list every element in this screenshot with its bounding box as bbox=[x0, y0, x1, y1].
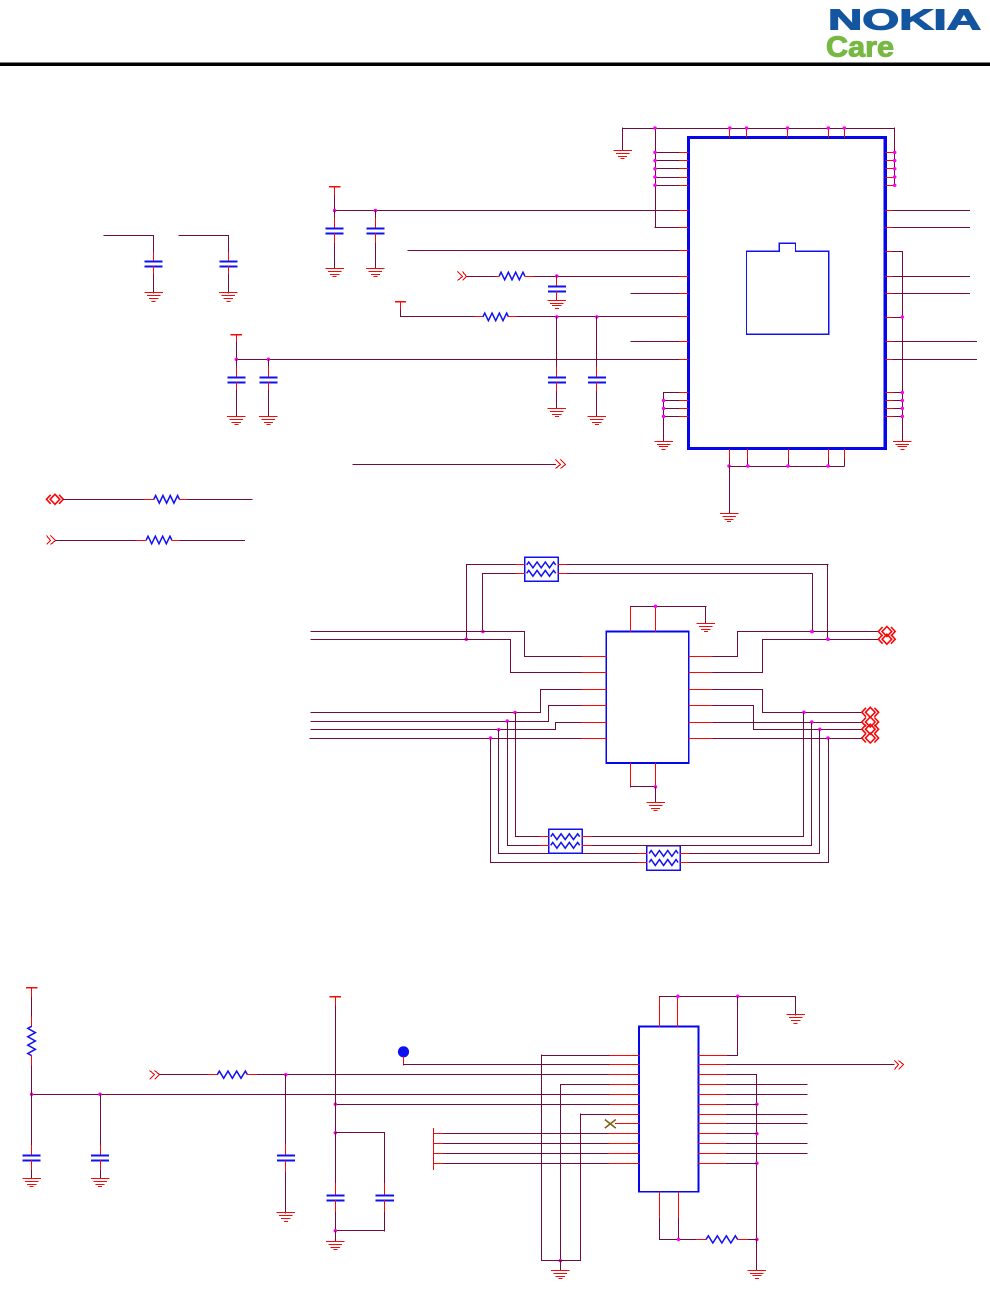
wire FL1 left B bbox=[481, 573, 516, 633]
wire U2 pin6 right bbox=[688, 736, 862, 740]
connector bidir bbox=[862, 707, 879, 717]
capacitor C1 bbox=[326, 218, 344, 269]
wire U3 top bbox=[659, 995, 796, 1027]
capacitor C2 bbox=[366, 218, 384, 269]
ground bbox=[144, 293, 163, 302]
wire U2 pin1 right bbox=[688, 630, 878, 657]
wire U3 pin3 right bus bbox=[698, 1075, 759, 1271]
wire U3 bottom bbox=[659, 1191, 757, 1241]
wire riser R4 bbox=[690, 739, 829, 863]
IC U2 bbox=[606, 632, 689, 764]
wire U3 pin6 left bbox=[334, 1102, 640, 1106]
wire U2 bottom bbox=[630, 763, 658, 803]
connector arrow out bbox=[556, 460, 566, 469]
wire U3 pin1 left bbox=[541, 1055, 639, 1262]
wire FL1 right B bbox=[567, 573, 814, 633]
svg-text:Care: Care bbox=[826, 32, 894, 64]
wire U3 pin2 left bbox=[403, 1064, 639, 1066]
ground bbox=[720, 514, 739, 522]
IC U1 (D2800) bbox=[689, 138, 886, 449]
wire U1 right y359 bbox=[885, 359, 977, 361]
ground bbox=[366, 269, 385, 277]
wire U2 pin1 left bbox=[311, 632, 607, 657]
wire VBAT top rail bbox=[622, 126, 896, 227]
wire U3 pin4 left bbox=[559, 1084, 640, 1262]
capacitor C7 bbox=[588, 366, 606, 416]
wire row1 bbox=[466, 274, 688, 278]
wire U1 right y276 bbox=[885, 276, 969, 278]
ground bbox=[325, 269, 344, 277]
wire U2 pin6 left bbox=[310, 736, 607, 740]
wire riser R1 bbox=[592, 713, 804, 837]
header rule bbox=[0, 62, 990, 66]
EMI filter FL3 bbox=[637, 846, 689, 871]
wire U1 left GND bundle bbox=[662, 392, 689, 442]
no-connect X bbox=[605, 1120, 640, 1129]
wire VDD column bbox=[334, 1005, 386, 1183]
wire U3 pin2 right bbox=[698, 1064, 894, 1066]
connector bidir bbox=[47, 494, 64, 504]
ground bbox=[548, 409, 567, 417]
wire U3 pin9 right bbox=[698, 1133, 757, 1135]
ground bbox=[893, 442, 912, 450]
resistor R7 bbox=[28, 1017, 36, 1066]
wire riser R2 bbox=[592, 723, 812, 846]
wire riser L1 bbox=[516, 713, 540, 837]
wire cap bottom bbox=[334, 1229, 386, 1242]
wire U2 pin2 left bbox=[311, 640, 607, 673]
wire U2 pin3 right bbox=[688, 690, 861, 715]
ground bbox=[654, 442, 673, 450]
wire U3 pin3 left bbox=[159, 1073, 640, 1145]
wire rowA bbox=[63, 499, 253, 501]
EMI filter FL2 bbox=[539, 829, 591, 853]
wire rowB bbox=[55, 540, 245, 542]
wire FL1 right A bbox=[567, 564, 830, 641]
wire U3 pin1 right bbox=[698, 997, 737, 1056]
ground bbox=[646, 803, 665, 811]
capacitor C12 bbox=[91, 1145, 109, 1179]
wire U3 pin5 right bbox=[698, 1094, 807, 1096]
connector arrow out bbox=[895, 1061, 904, 1070]
wire U1 right y227 bbox=[885, 227, 970, 229]
Nokia Care logo bbox=[826, 5, 981, 64]
connector arrow in bbox=[150, 1071, 160, 1080]
ground bbox=[697, 624, 716, 632]
resistor R4 bbox=[136, 536, 179, 544]
wire / capacitor C3 branch bbox=[103, 235, 154, 253]
wire U2 pin2 right bbox=[688, 637, 878, 672]
ground bbox=[219, 293, 238, 302]
net dot / LED D1 bbox=[398, 1046, 409, 1065]
wire U1 right y341 bbox=[885, 341, 977, 343]
connector J1 / wires U3 pins 9-12 bbox=[433, 1128, 639, 1170]
wire U2 top bbox=[630, 604, 707, 632]
connector bidir bbox=[878, 634, 895, 644]
wire U1 right GND bus bbox=[885, 252, 904, 442]
EMI filter FL1 bbox=[515, 557, 567, 581]
wire U3 pin6 right bbox=[698, 1104, 757, 1106]
wire riser L2 bbox=[508, 722, 540, 846]
wire U3 pin5 left bbox=[30, 1093, 640, 1097]
connector arrow bbox=[47, 536, 56, 545]
ground bbox=[22, 1179, 40, 1187]
power T bbox=[26, 987, 37, 998]
capacitor C11 bbox=[23, 1145, 41, 1179]
wire U3 pin4 right bbox=[698, 1084, 807, 1086]
capacitor C13 bbox=[326, 1183, 344, 1231]
capacitor C9 bbox=[259, 366, 277, 417]
wire stub U1 y293 bbox=[631, 293, 689, 295]
ground bbox=[277, 1213, 296, 1222]
resistor R3 bbox=[144, 496, 187, 504]
wire U2 pin3 left bbox=[311, 690, 607, 715]
power T bbox=[330, 996, 341, 1006]
wire GND rail bbox=[541, 1260, 581, 1271]
capacitor C10 bbox=[277, 1144, 295, 1213]
connector arrow in bbox=[458, 272, 467, 281]
ground bbox=[551, 1271, 570, 1279]
resistor R6 bbox=[208, 1071, 257, 1078]
wire pull-up bbox=[31, 997, 33, 1146]
ground bbox=[227, 417, 246, 425]
wire row2 bbox=[401, 310, 689, 368]
connector bidir bbox=[862, 717, 879, 727]
ground bbox=[588, 417, 607, 425]
wire U1 right y293 bbox=[885, 293, 969, 295]
wire to connector bbox=[353, 464, 556, 466]
power T / wire VIO to U1 bbox=[329, 186, 689, 219]
wire cap branch bbox=[100, 1094, 102, 1146]
ground bbox=[91, 1179, 110, 1187]
ground bbox=[748, 1271, 767, 1279]
wire / capacitor C4 branch bbox=[178, 235, 228, 253]
wire riser R3 bbox=[690, 730, 820, 854]
wire stub U1 y341 bbox=[631, 341, 689, 343]
connector bidir bbox=[862, 733, 879, 743]
wire to U1 pin y251 bbox=[407, 250, 688, 252]
wire U2 pin5 right bbox=[688, 720, 862, 724]
capacitor C5 bbox=[548, 277, 566, 300]
resistor R2 bbox=[474, 313, 517, 321]
wire FL1 left A bbox=[464, 564, 516, 641]
capacitor C14 bbox=[376, 1183, 394, 1231]
power T bbox=[231, 334, 242, 343]
connector bidir bbox=[862, 724, 879, 734]
ground bbox=[259, 417, 278, 425]
ground bbox=[548, 301, 567, 309]
IC U3 bbox=[639, 1026, 699, 1191]
wire U3 pin11 right bbox=[698, 1153, 807, 1155]
wire U1 bottom rail bbox=[727, 449, 844, 514]
ground bbox=[326, 1242, 345, 1250]
wire riser L3 bbox=[499, 730, 639, 854]
ground bbox=[786, 1015, 805, 1024]
capacitor C8 bbox=[227, 366, 245, 417]
resistor R1 bbox=[495, 272, 533, 280]
wire riser L4 bbox=[491, 739, 639, 863]
wire U3 pin10 right bbox=[698, 1143, 807, 1145]
wire U3 pin7 right bbox=[698, 1114, 807, 1116]
wire U3 pin8 right bbox=[698, 1123, 807, 1125]
resistor R5 bbox=[696, 1236, 748, 1243]
capacitor C6 bbox=[548, 366, 566, 409]
connector bidir bbox=[878, 627, 895, 637]
wire VREF row bbox=[235, 342, 689, 367]
ground bbox=[613, 151, 632, 159]
wire U2 pin4 right bbox=[688, 706, 861, 731]
wire U3 pin12 right bbox=[698, 1163, 757, 1165]
capacitor C3 bbox=[145, 252, 163, 294]
wire U3 pin7 left bbox=[580, 1114, 640, 1262]
capacitor C4 bbox=[219, 252, 237, 294]
power T bbox=[395, 301, 406, 310]
wire U1 right y210 bbox=[885, 210, 970, 212]
wire U2 pin5 left bbox=[311, 723, 607, 732]
wire U2 pin4 left bbox=[311, 706, 607, 723]
